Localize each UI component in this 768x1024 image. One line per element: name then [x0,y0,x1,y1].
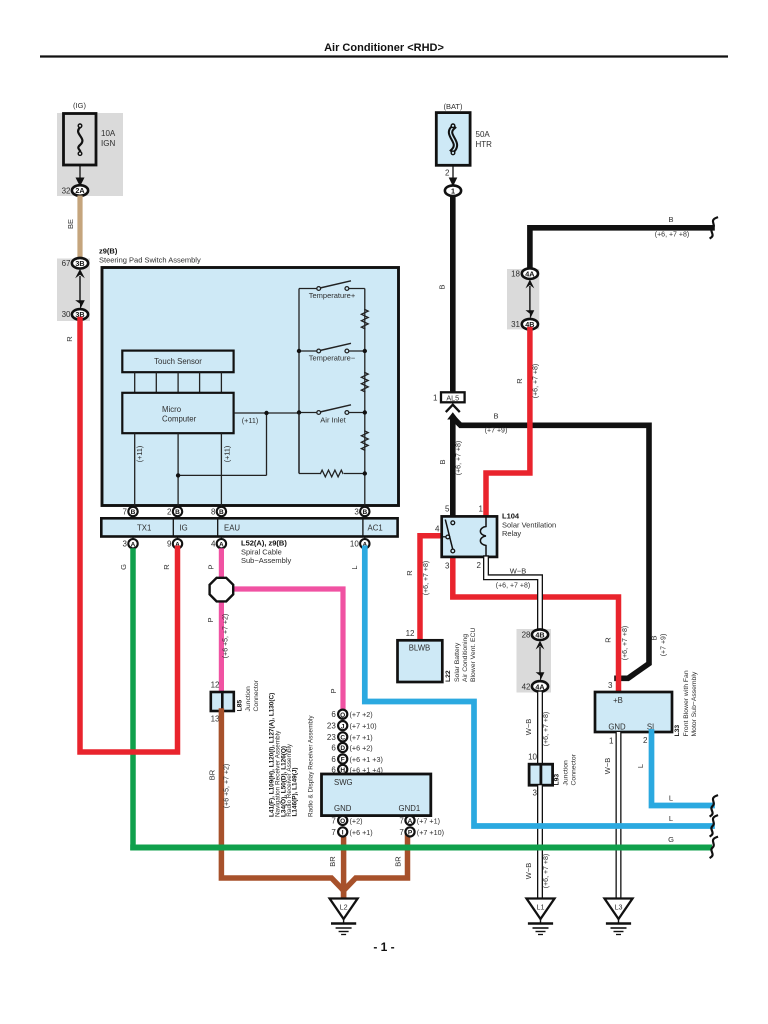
svg-text:(+7 +10): (+7 +10) [417,828,444,837]
svg-text:2: 2 [643,736,648,745]
svg-text:- 1 -: - 1 - [373,940,394,954]
svg-text:23: 23 [327,733,336,742]
relay L104 box [442,516,497,557]
svg-text:7: 7 [399,816,404,825]
terminal arrow down [76,178,85,187]
wire R relay pin 3 to L33 +B [453,557,619,692]
svg-text:IG: IG [180,524,188,533]
svg-text:Air Conditioner <RHD>: Air Conditioner <RHD> [324,42,444,54]
touch sensor to micro computer lines [135,372,222,393]
connector 4A [522,268,538,279]
relay coil [480,518,486,557]
terminal arrow down [449,178,458,187]
svg-text:(+6, +7 +8): (+6, +7 +8) [456,441,463,475]
svg-text:GND: GND [608,722,626,731]
wire B main vertical [450,196,456,392]
lead from fuse [79,165,81,178]
wire B below AL5 with arrow tip [447,412,458,419]
connector 2A [72,185,88,196]
arrow up [536,641,545,650]
wire P branch right to SWG pin Q [233,589,344,710]
connector 4B [532,629,548,640]
spiral cable connector strip [101,518,397,536]
svg-text:7: 7 [123,507,128,516]
svg-text:Junction: Junction [563,760,570,786]
svg-text:C: C [340,735,345,742]
svg-text:Air Inlet: Air Inlet [320,415,346,424]
wire R from connector 30-3B to pin 9A [80,320,178,753]
break symbol top B [711,218,718,239]
svg-text:1: 1 [433,393,438,402]
svg-text:(+6, +7 +8): (+6, +7 +8) [543,854,550,888]
junction connector L93 [529,764,553,785]
fuse element [78,128,82,153]
svg-text:Touch Sensor: Touch Sensor [154,357,202,366]
svg-text:O: O [340,818,345,825]
svg-text:2: 2 [477,561,482,570]
fuse IG backing plate [57,113,123,196]
svg-text:(+6, +7 +8): (+6, +7 +8) [543,712,550,746]
svg-text:AC1: AC1 [368,524,383,533]
svg-text:(+6 +5, +7 +2): (+6 +5, +7 +2) [223,614,230,658]
connector 4A [532,681,548,692]
svg-text:R: R [405,570,414,576]
svg-text:6: 6 [331,755,336,764]
svg-text:BR: BR [394,856,403,867]
connector 3B upper [72,258,88,269]
svg-text:L: L [350,565,359,569]
svg-text:A: A [219,541,224,548]
svg-text:Sub−Assembly: Sub−Assembly [241,556,291,565]
svg-text:4B: 4B [535,631,544,640]
svg-text:4: 4 [435,525,440,534]
svg-text:4A: 4A [525,270,534,279]
svg-text:R: R [65,336,74,342]
connector 1 [445,185,461,196]
break symbol L upper [711,796,718,817]
arrow down [526,310,535,319]
svg-text:Steering Pad Switch Assembly: Steering Pad Switch Assembly [99,255,201,264]
svg-text:3: 3 [533,789,538,798]
resistor R-temp- [361,373,368,392]
svg-text:W−B: W−B [524,719,533,735]
svg-text:3B: 3B [75,259,84,268]
svg-text:L33: L33 [674,725,681,737]
ground L3 [605,899,633,935]
svg-text:(BAT): (BAT) [443,102,463,111]
svg-text:(IG): (IG) [73,101,86,110]
svg-text:L: L [669,814,673,823]
svg-text:(+7 +9): (+7 +9) [661,634,668,657]
svg-text:42: 42 [522,682,531,691]
svg-text:(+6, +7 +8): (+6, +7 +8) [533,364,540,398]
fusible link element [451,128,456,151]
svg-text:B: B [219,509,224,516]
svg-text:AL5: AL5 [446,393,459,402]
svg-text:P: P [207,564,216,569]
svg-text:Motor Sub−Assembly: Motor Sub−Assembly [691,671,698,736]
switch left bus [298,289,300,474]
svg-text:L85: L85 [237,700,244,712]
ground L1 [527,899,555,935]
fusible link 50A HTR box [436,113,470,166]
svg-text:L22: L22 [445,670,452,682]
svg-text:6: 6 [331,743,336,752]
node dot bottom [363,471,367,475]
header rule [40,55,728,57]
svg-text:10: 10 [350,540,359,549]
wire BR from SWG GND pin I [341,837,347,898]
svg-text:32: 32 [62,186,71,195]
wire L from L33 SI [652,732,713,806]
svg-text:R: R [515,378,524,384]
svg-text:B: B [438,284,447,289]
svg-text:A: A [131,541,136,548]
arrow up [526,279,535,288]
wire L from AC1 pin 10 [365,548,712,826]
svg-text:B: B [131,509,136,516]
svg-text:(+6, +7 +8): (+6, +7 +8) [496,583,530,590]
svg-text:G: G [668,835,674,844]
svg-text:B: B [438,459,447,464]
svg-text:Connector: Connector [253,679,260,711]
svg-text:Computer: Computer [162,414,197,423]
pass-through arrow up [75,269,85,278]
svg-text:P: P [206,617,215,622]
svg-text:(+6 +2): (+6 +2) [350,743,373,752]
svg-text:Junction: Junction [245,686,252,712]
svg-text:67: 67 [62,259,71,268]
wire W-B relay pin2 to 28-4B [486,558,540,629]
svg-text:12: 12 [406,629,415,638]
svg-text:L104: L104 [502,511,520,520]
svg-text:(+6 +5, +7 +2): (+6 +5, +7 +2) [224,764,231,808]
svg-text:B: B [362,509,367,516]
svg-text:R: R [162,564,171,570]
svg-text:W−B: W−B [510,567,526,576]
svg-text:8: 8 [211,507,216,516]
svg-text:Relay: Relay [502,529,521,538]
svg-text:(+6 +1 +3): (+6 +1 +3) [350,755,383,764]
svg-text:23: 23 [327,722,336,731]
svg-text:Solar Battery: Solar Battery [454,642,461,682]
switch right bus [364,289,366,508]
wire P lower to L85 [219,600,224,693]
SWG box [322,774,431,816]
svg-text:L2: L2 [340,902,348,911]
switch Air Inlet [297,405,367,425]
svg-text:Air Conditioning: Air Conditioning [462,634,469,682]
wire BR from SWG GND1 pin P [344,837,408,891]
blower L33 box [595,692,672,732]
svg-text:Micro: Micro [162,405,182,414]
svg-text:G: G [119,564,128,570]
svg-text:B: B [493,412,498,421]
svg-text:L52(A), z9(B): L52(A), z9(B) [241,539,287,548]
wire B branch to blower [453,418,649,679]
svg-text:10A: 10A [101,129,116,138]
svg-text:Front Blower with Fan: Front Blower with Fan [683,670,690,736]
svg-text:7: 7 [331,828,336,837]
svg-text:BE: BE [66,219,75,229]
svg-text:+B: +B [613,696,623,705]
wire R relay pin 4 to BLWB [420,536,442,640]
svg-text:L3: L3 [615,902,623,911]
svg-text:3: 3 [445,562,450,571]
svg-text:3: 3 [354,507,359,516]
svg-text:L1: L1 [537,902,545,911]
svg-text:(+7 +10): (+7 +10) [350,722,377,731]
svg-text:7: 7 [399,828,404,837]
svg-text:P: P [408,830,413,837]
svg-text:(+7 +9): (+7 +9) [485,428,508,435]
svg-text:GND: GND [334,804,352,813]
svg-text:Connector: Connector [571,753,578,785]
svg-text:EAU: EAU [224,524,240,533]
fuse 10A IGN box [64,114,97,166]
wire R from 31-4B to relay pin 1 [486,330,530,517]
connector 4B [522,319,538,330]
svg-text:(+11): (+11) [223,446,232,462]
junction connector L85 [211,692,234,711]
connector pair 18/31 backing [507,269,539,329]
wire W-B L93 to ground L1 [537,785,543,898]
svg-text:1: 1 [609,737,614,746]
lead to terminal [452,165,454,178]
svg-text:L93: L93 [554,774,561,786]
node junction dot [176,473,180,477]
svg-text:4: 4 [211,540,216,549]
bottom resistor row [298,413,300,474]
wire BR from L85 to ground L2 [221,711,343,898]
svg-text:L146(P), L149(J): L146(P), L149(J) [292,767,299,816]
svg-text:(+2): (+2) [350,816,363,825]
svg-text:3: 3 [123,540,128,549]
svg-text:L: L [636,764,645,768]
pass-through arrow down [75,300,85,309]
resistor R-bottom [321,470,343,477]
svg-text:(+6, +7 +8): (+6, +7 +8) [655,232,689,239]
svg-text:18: 18 [511,270,520,279]
svg-text:TX1: TX1 [137,524,151,533]
splice AL5 box [441,392,465,402]
svg-text:F: F [341,757,345,764]
wire P upper stub [219,548,224,579]
svg-text:1: 1 [451,187,455,196]
connector pair 28/42 backing [517,629,552,693]
svg-text:13: 13 [211,714,220,723]
svg-text:30: 30 [62,310,71,319]
wire G vertical from pin 3A [130,548,136,850]
resistor R-temp+ [361,310,368,329]
svg-text:7: 7 [331,816,336,825]
svg-text:R: R [604,637,613,643]
micro computer box [122,393,233,433]
pin stub lines through connectors [133,506,365,545]
svg-text:(+6, +7 +8): (+6, +7 +8) [423,561,430,595]
svg-text:B: B [668,215,673,224]
wire B top right horizontal [530,228,712,270]
svg-text:BLWB: BLWB [409,643,431,652]
svg-text:2: 2 [445,169,450,178]
break symbol L lower [711,816,718,837]
svg-text:10: 10 [528,753,537,762]
svg-text:P: P [329,688,338,693]
svg-text:Q: Q [340,712,345,719]
wire G horizontal to page edge [130,845,712,851]
ECU box BLWB [398,640,443,682]
svg-text:(+7 +1): (+7 +1) [417,816,440,825]
svg-text:2A: 2A [75,186,84,195]
svg-text:(+11): (+11) [135,446,144,462]
wire BE beige [77,196,82,259]
switch Temperature- [297,343,367,362]
svg-text:BR: BR [328,856,337,867]
svg-text:2: 2 [167,507,172,516]
svg-text:1: 1 [479,505,484,514]
node junction dot [264,411,268,415]
svg-text:J: J [341,723,345,730]
svg-text:Blower Vent. ECU: Blower Vent. ECU [470,628,477,682]
svg-text:BR: BR [208,769,217,780]
resistor R-air [361,431,368,450]
svg-text:Temperature+: Temperature+ [309,291,356,300]
svg-text:I: I [342,830,344,837]
svg-text:GND1: GND1 [399,804,421,813]
svg-text:Radio & Display Receiver Assem: Radio & Display Receiver Assembly [308,715,315,817]
svg-text:W−B: W−B [524,863,533,879]
svg-text:W−B: W−B [603,758,612,774]
svg-text:(+6 +1): (+6 +1) [350,828,373,837]
svg-text:IGN: IGN [101,139,115,148]
svg-text:50A: 50A [476,130,491,139]
connector pair backing plate [57,259,90,322]
svg-text:31: 31 [511,320,520,329]
svg-text:Temperature−: Temperature− [309,353,356,362]
wire W-B L33 GND to ground L3 [616,732,622,899]
svg-text:(+11): (+11) [242,416,258,425]
male terminal chevron [447,405,459,412]
svg-text:SWG: SWG [334,778,353,787]
switch Temperature+ [299,281,365,300]
relay switch contacts [442,536,446,538]
connector 3B lower [72,309,88,320]
svg-text:3: 3 [608,681,613,690]
svg-text:12: 12 [211,681,220,690]
svg-text:B: B [175,509,180,516]
wire W-B 42-4A to L93 [537,692,543,765]
svg-text:A: A [408,818,413,825]
touch sensor box [122,351,233,373]
svg-text:4A: 4A [535,682,544,691]
svg-text:6: 6 [331,710,336,719]
break symbol G [711,837,718,858]
shield octagon node [210,578,234,602]
svg-text:(+7 +2): (+7 +2) [350,710,373,719]
svg-text:9: 9 [167,540,172,549]
steering pad switch assembly box [102,268,399,506]
ground L2 [330,899,358,935]
micro computer output lines [135,413,299,507]
svg-text:HTR: HTR [476,140,493,149]
arrow down [536,672,545,681]
svg-text:z9(B): z9(B) [99,246,118,255]
svg-text:D: D [340,745,345,752]
svg-text:(+6, +7 +8): (+6, +7 +8) [622,626,629,660]
svg-text:L: L [669,794,673,803]
svg-text:28: 28 [522,631,531,640]
svg-text:(+7 +1): (+7 +1) [350,733,373,742]
svg-text:5: 5 [445,505,450,514]
svg-text:B: B [650,635,659,640]
